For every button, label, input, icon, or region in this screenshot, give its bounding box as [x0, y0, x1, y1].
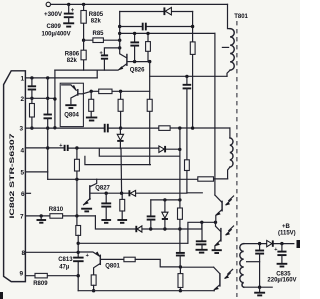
ground (under C x=106) [101, 220, 111, 223]
resistor R (x=120.6) [118, 91, 123, 130]
svg-text:82k: 82k [91, 19, 102, 25]
wire: pin4 row [25, 148, 179, 149]
resistor R810 [49, 207, 64, 218]
ground (PC2 emitter) [212, 250, 222, 253]
diode D (y=229 run, cathode left) [136, 226, 142, 232]
wire: Q804 base row y=91.3 [83, 91, 149, 93]
elec capacitor C (series, pin4 row) [59, 143, 67, 151]
svg-text:100µ/400V: 100µ/400V [42, 32, 71, 38]
ground (pin7) [37, 216, 47, 223]
wire: winding return y=76 [150, 75, 227, 77]
svg-text:+: + [71, 8, 75, 14]
wire: primary bottom to return [227, 70, 230, 76]
light arrow (PC3) [225, 269, 233, 278]
scan edge artifacts [0, 240, 300, 299]
capacitor C809 100u/400V [42, 4, 75, 37]
diode D (x=165, pointing down) [162, 200, 168, 229]
svg-text:C809: C809 [47, 24, 62, 30]
resistor R85 [84, 31, 120, 42]
wire: Q826 collector rail [135, 61, 150, 63]
+300V input terminal [44, 2, 63, 18]
diode D (y=193 row, cathode left) [129, 190, 135, 196]
resistor R (Q801 emitter) [91, 275, 96, 293]
wire: Q827 base row y=193 [90, 192, 202, 194]
ground (under C x=202) [196, 250, 208, 253]
T801 secondary winding [240, 244, 244, 288]
node: R805/R85/R806 junction [82, 39, 85, 42]
svg-text:R810: R810 [49, 207, 64, 213]
resistor R (series, pin3 row) [159, 126, 170, 131]
wire: Q801 collector run to PC3 [135, 259, 213, 267]
vertical bus x=214.9 (to opto stack) [214, 33, 216, 195]
svg-text:+: + [59, 143, 62, 149]
wire: secondary top to +B [244, 243, 294, 245]
svg-text:(115V): (115V) [278, 230, 296, 236]
resistor R (Q826 collector) [146, 32, 151, 62]
node: C809 tap on rail [67, 3, 70, 6]
wire: long run y=179 (pin5 net to aux winding) [48, 178, 228, 180]
svg-text:82k: 82k [67, 58, 78, 64]
wire: pin8 row [25, 251, 78, 253]
column x=47.7 with capacitor (pin1..pin5) [44, 78, 52, 179]
svg-text:5: 5 [20, 170, 24, 177]
column x=150 (Q826 node down) [149, 62, 151, 165]
wire: pin7 row [25, 215, 95, 217]
capacitor C835 220u/160V [274, 244, 286, 264]
svg-text:4: 4 [20, 148, 24, 155]
transistor Q827 [83, 179, 110, 205]
wire: secondary tap [247, 261, 260, 263]
wire: +300V top rail to transformer [51, 3, 228, 5]
svg-text:8: 8 [21, 250, 25, 257]
transistor Q826 [118, 48, 146, 74]
wire: pin9 row [25, 275, 78, 277]
wire: snubber top run with diode [120, 11, 193, 13]
ground (under R x=122) [117, 220, 127, 223]
svg-text:Q827: Q827 [95, 185, 110, 191]
svg-text:+B: +B [282, 224, 291, 230]
resistor R805 82k [81, 4, 104, 40]
wire: secondary bottom [244, 286, 273, 288]
transistor Q804 [62, 85, 76, 90]
phototransistor PC2 [215, 222, 234, 250]
wire: stub x=97.2 [96, 70, 98, 78]
column x=78 (pin7 net down / C813) [76, 216, 81, 291]
vertical bus x=119.7 (snubber node) [119, 12, 121, 48]
capacitor C (x=202) [196, 222, 207, 249]
resistor R (x=91.2) with ground [86, 91, 97, 120]
transistor Q801 [78, 252, 124, 275]
svg-text:47µ: 47µ [59, 264, 70, 270]
capacitor C (series, pin3 row) [105, 124, 108, 133]
svg-text:+: + [274, 247, 277, 253]
svg-text:3: 3 [19, 126, 23, 133]
resistor R (x=149.7, in Q826 node column) [147, 99, 152, 111]
resistor R (pin2-pin3, x=32) [30, 97, 35, 130]
svg-text:+: + [100, 51, 103, 57]
ground (inside Q804 box) [65, 104, 76, 106]
node: R85 right end on bus [118, 39, 121, 42]
wire: y=243.3 run to right [78, 242, 188, 244]
wire: rail elbow into primary [228, 4, 231, 28]
node: R805 tap on rail [82, 3, 85, 6]
Q804 module box [60, 83, 83, 126]
svg-text:T801: T801 [234, 14, 248, 20]
column x=77 (pin4 node to bottom bus) [75, 148, 80, 216]
phototransistor PC3 [214, 267, 233, 291]
svg-text:1: 1 [20, 75, 24, 82]
svg-text:C813: C813 [58, 257, 73, 263]
light arrow (PC1) [226, 196, 234, 205]
wire: feedback run to transformer bus [120, 32, 215, 34]
svg-text:R85: R85 [93, 31, 105, 37]
resistor R (x=186.9) [185, 160, 190, 193]
phototransistor PC1 [215, 195, 234, 222]
T801 aux winding [228, 128, 233, 179]
capacitor C (snubber) [143, 23, 146, 31]
resistor R (Q801 collector) [124, 257, 135, 262]
diode D (pin4 row, pointing right) [159, 146, 165, 153]
capacitor C (pin1-pin2, x=32) [28, 78, 36, 98]
wire: pin5 row [25, 171, 47, 173]
column x=180 (down to bottom) [179, 128, 181, 253]
wire: pin2 row [25, 97, 55, 99]
capacitor C (Q826 collector) [130, 32, 139, 62]
IC U901 STR-S6307 body [4, 71, 26, 282]
ground (secondary) [254, 287, 265, 295]
svg-text:2: 2 [20, 96, 24, 103]
ground (C835) [277, 264, 288, 267]
wire: pin1 row [25, 77, 97, 79]
node/column x=54.9 [53, 70, 56, 129]
svg-text:IC802 STR-S6307: IC802 STR-S6307 [9, 133, 16, 219]
transformer T801 core (dashed) [236, 21, 238, 297]
wire: y=199.9 run [151, 199, 180, 201]
elec cap C (base decoupling) [100, 48, 120, 70]
resistor R (x=122) [120, 193, 125, 219]
svg-text:+300V: +300V [44, 11, 63, 18]
resistor R (x=180 upper) [178, 200, 183, 229]
svg-text:Q826: Q826 [130, 67, 145, 73]
resistor R809 [33, 273, 48, 286]
svg-text:Q804: Q804 [64, 113, 79, 119]
svg-text:Q801: Q801 [105, 263, 120, 269]
ground (Q827 emitter) [81, 209, 92, 212]
wire: bottom bus y=290.7 [78, 290, 214, 292]
capacitor C (x=151) [147, 200, 156, 229]
diode D (pin3 to pin4 row, pointing down) [117, 128, 123, 149]
svg-text:9: 9 [19, 271, 23, 278]
vertical x=192.6 with resistor [190, 12, 195, 129]
wire: pin4 staircase branch [99, 148, 180, 156]
svg-text:7: 7 [20, 214, 24, 221]
svg-text:R806: R806 [65, 52, 80, 58]
wire: pin6 stub [25, 192, 30, 194]
column x=180 lower (cap + resistor) [176, 253, 185, 293]
capacitor C (x=186.9) [183, 76, 192, 159]
svg-text:R809: R809 [33, 281, 48, 287]
wire: y=164.6 run with stub [85, 156, 150, 164]
resistor R (horizontal, base row) [99, 89, 112, 94]
wire: pin3 row [25, 127, 230, 129]
diode D (output rectifier) [267, 240, 273, 246]
light arrow (PC2) [226, 226, 234, 235]
wire: emitter return run y=70 [55, 69, 118, 71]
wire: snubber cap run [120, 26, 193, 28]
wire: y=222.3 run [188, 222, 216, 243]
svg-text:R805: R805 [89, 12, 104, 18]
capacitor C (x=106) [101, 193, 111, 219]
resistor R806 82k [65, 40, 86, 70]
wire: primary tap [222, 46, 228, 48]
wire: pin7 staircase to y=229 run [95, 216, 201, 229]
capacitor C (output filter x=259.6) [255, 244, 264, 288]
svg-text:6: 6 [21, 191, 25, 198]
diode D (snubber, cathode left) [164, 7, 171, 15]
capacitor C813 47u [58, 253, 89, 271]
resistor R (on y=179 run) [198, 177, 214, 181]
svg-text:+: + [86, 253, 89, 259]
IC pin number labels 1-9 [19, 75, 25, 277]
svg-text:220µ/160V: 220µ/160V [267, 278, 296, 284]
svg-text:C835: C835 [276, 271, 291, 277]
wire: column pin4 row down to Q827 base row [120, 149, 123, 194]
T801 primary winding [230, 29, 234, 71]
